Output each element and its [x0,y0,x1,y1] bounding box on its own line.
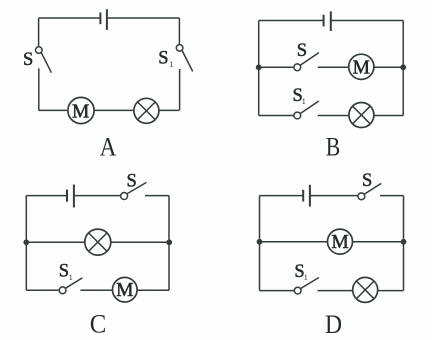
lamp (circuit A) cross diagonal 1 [138,102,156,120]
wire C top middle segment [74,195,121,197]
wire B middle branch right [374,66,403,68]
lamp (circuit D) cross diagonal 2 [356,281,374,299]
lamp (circuit B) cross diagonal 2 [353,106,371,124]
lamp (circuit C) circle [85,229,111,255]
wire A between motor and lamp [94,109,133,111]
wire D bottom-right segment [378,290,404,292]
wire A right vertical upper [178,18,180,45]
switch S (circuit B) terminal circle [294,64,301,71]
svg-text:M: M [331,232,348,253]
switch S (circuit A) terminal circle [36,47,43,54]
svg-text:M: M [72,102,89,123]
wire D top-left segment [260,195,304,197]
wire C top-right segment [145,195,169,197]
switch S (circuit A) blade [41,53,51,73]
lamp (circuit C) cross diagonal 2 [89,233,107,251]
switch S1 (circuit C) blade [65,278,82,288]
motor M (circuit A) circle [68,97,94,123]
wire A bottom-right segment [159,109,179,111]
wire B bottom-right segment [374,115,403,117]
wire B right vertical [402,21,404,116]
battery C (cell): long plate [73,185,75,208]
wire B bottom center segment [318,115,349,117]
lamp (circuit A) circle [134,98,159,123]
battery D (cell): short plate [302,190,304,202]
svg-text:B: B [326,133,341,162]
wire D bottom center segment [318,290,353,292]
wire C bottom-left segment [26,289,59,291]
svg-text:S: S [127,172,137,192]
switch S (circuit C) blade [127,182,146,194]
switch S1 (circuit B) terminal circle [294,112,301,119]
wire A bottom-left segment [39,109,67,111]
wire A top-left segment [39,17,101,19]
lamp (circuit D) cross diagonal 1 [356,281,374,299]
wire C top-left segment [26,195,67,197]
wire D right vertical [403,196,405,291]
switch S1 (circuit B) blade [300,101,319,114]
lamp (circuit D) circle [353,277,378,302]
svg-text:M: M [116,280,133,301]
wire A top-right segment [107,17,179,19]
svg-text:1: 1 [302,97,306,106]
lamp (circuit B) circle [349,103,374,128]
svg-text:M: M [353,57,370,78]
switch S1 (circuit A) blade [182,51,193,72]
wire A left vertical lower [38,68,40,110]
wire B top-left segment [259,20,324,22]
svg-text:S: S [23,50,33,70]
switch S1 (circuit D) blade [301,278,319,289]
wire D top-right segment [380,195,404,197]
switch S1 (circuit D) terminal circle [294,287,301,294]
wire C bottom center segment [80,289,112,291]
junction node right (circuit C) [166,239,172,245]
lamp (circuit A) cross diagonal 2 [138,102,156,120]
svg-text:1: 1 [304,273,308,282]
motor M (circuit D) circle [328,229,353,254]
motor M (circuit B) circle [349,54,374,79]
switch S (circuit D) terminal circle [358,193,365,200]
wire B middle branch left [259,66,294,68]
svg-text:D: D [325,310,342,339]
svg-text:C: C [90,310,107,339]
lamp (circuit C) cross diagonal 1 [89,233,107,251]
wire A left vertical upper [38,18,40,47]
svg-text:A: A [100,133,117,162]
svg-text:S: S [362,171,372,191]
switch S1 (circuit A) terminal circle [176,45,183,52]
wire D top middle segment [310,195,358,197]
wire C right vertical [168,196,170,291]
battery D (cell): long plate [309,185,311,207]
svg-text:S: S [158,48,168,68]
wire D middle branch right [353,241,404,243]
motor M (circuit C) circle [113,277,138,302]
wire B top-right segment [331,20,403,22]
switch S (circuit B) blade [300,53,319,66]
junction node left (circuit B) [256,64,262,70]
battery A (cell): long plate [106,9,108,30]
svg-text:S: S [59,262,69,282]
wire B middle branch center [318,66,349,68]
battery B (cell): long plate [330,11,332,31]
wire C left vertical [25,196,27,291]
junction node left (circuit D) [257,239,263,245]
switch S1 (circuit C) terminal circle [59,287,66,294]
junction node right (circuit B) [400,64,406,70]
wire D left vertical [259,196,261,291]
wire A right vertical lower [179,69,181,110]
junction node right (circuit D) [401,239,407,245]
svg-text:1: 1 [169,60,173,69]
switch S (circuit C) terminal circle [121,193,128,200]
junction node left (circuit C) [23,239,29,245]
wire C bottom-right segment [137,289,169,291]
wire B bottom-left segment [259,115,294,117]
svg-text:S: S [297,41,307,61]
wire D middle branch left [260,241,328,243]
wire D bottom-left segment [260,290,295,292]
wire C middle branch left [26,241,84,243]
wire B left vertical [258,21,260,116]
battery A (cell): short plate [99,12,101,24]
wire C middle branch right [111,241,169,243]
lamp (circuit B) cross diagonal 1 [353,106,371,124]
battery B (cell): short plate [323,15,325,27]
battery C (cell): short plate [66,190,68,202]
svg-text:1: 1 [69,273,73,282]
switch S (circuit D) blade [364,183,381,194]
